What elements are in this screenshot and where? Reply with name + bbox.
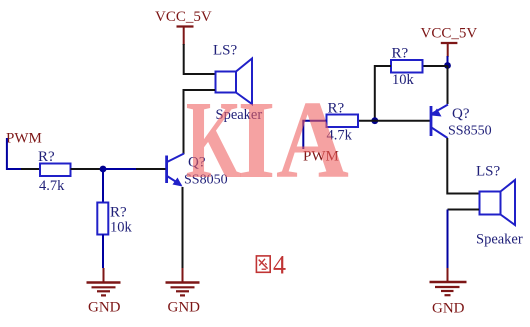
svg-text:LS?: LS?	[213, 43, 238, 59]
junction node (base of Q1)	[100, 166, 107, 173]
svg-text:K: K	[186, 80, 242, 202]
svg-text:SS8550: SS8550	[448, 124, 492, 139]
svg-text:4: 4	[273, 251, 286, 280]
speaker LS? (left)	[216, 59, 253, 105]
wire R4 to Q2 base	[358, 120, 430, 122]
svg-text:GND: GND	[432, 301, 465, 317]
svg-text:R?: R?	[110, 205, 127, 221]
svg-text:R?: R?	[38, 149, 55, 165]
wire junction to Q2 emitter	[447, 66, 449, 105]
transistor Q2 SS8550 (PNP)	[431, 105, 448, 139]
svg-text:GND: GND	[168, 300, 201, 316]
wire junction to base (blue part)	[103, 168, 136, 170]
ground (right circuit)	[430, 268, 467, 317]
wire junction to base (black part)	[136, 168, 166, 170]
port PWM (right)	[303, 121, 339, 165]
power port VCC_5V (right)	[421, 26, 478, 58]
svg-text:GND: GND	[88, 300, 121, 316]
wire down to right ground	[447, 210, 449, 269]
wire junction down to R2	[102, 169, 104, 203]
junction node (base of Q2)	[371, 117, 378, 124]
power port VCC_5V (left)	[155, 9, 212, 45]
transistor Q1 SS8050 (NPN)	[167, 154, 184, 187]
ground (under Q1 emitter)	[166, 268, 201, 316]
wire R3 left down to base junction	[375, 66, 391, 121]
resistor R3 10k	[391, 60, 423, 73]
resistor R1 4.7k	[40, 164, 71, 177]
svg-text:R?: R?	[392, 46, 409, 62]
wire VCC to speaker top terminal	[184, 44, 215, 74]
wire R1 to junction	[71, 168, 104, 170]
wire speaker bottom terminal to Q1 collector	[184, 90, 216, 154]
wire PWM to R1 (black part)	[21, 168, 40, 170]
wire speaker bottom terminal left	[448, 209, 480, 211]
wire Q2 collector to speaker top terminal	[447, 138, 479, 194]
wire R2 to ground	[102, 235, 104, 269]
svg-text:Speaker: Speaker	[476, 232, 523, 248]
resistor R2 10k	[97, 203, 108, 235]
wire PWM to R1 (blue part)	[6, 168, 21, 170]
svg-text:I: I	[238, 78, 276, 201]
wire Q1 emitter to ground	[182, 187, 184, 268]
svg-text:10k: 10k	[392, 72, 415, 88]
ground (under R2)	[87, 268, 121, 316]
watermark KIA	[186, 78, 349, 202]
wire VCC right down to junction	[447, 56, 449, 66]
speaker LS? (right)	[480, 180, 516, 225]
svg-text:VCC_5V: VCC_5V	[155, 9, 212, 25]
svg-text:4.7k: 4.7k	[39, 178, 65, 194]
wire R3 right to junction	[423, 65, 448, 67]
port PWM (left)	[6, 131, 42, 171]
figure label 图4	[256, 251, 286, 280]
svg-text:VCC_5V: VCC_5V	[421, 26, 478, 42]
junction node (VCC / R3 / emitter)	[444, 62, 451, 69]
svg-text:10k: 10k	[110, 220, 133, 236]
svg-text:PWM: PWM	[6, 131, 42, 147]
svg-text:LS?: LS?	[476, 164, 501, 180]
resistor R4 4.7k	[327, 115, 359, 128]
svg-text:A: A	[276, 78, 349, 201]
svg-text:Q?: Q?	[452, 106, 470, 122]
